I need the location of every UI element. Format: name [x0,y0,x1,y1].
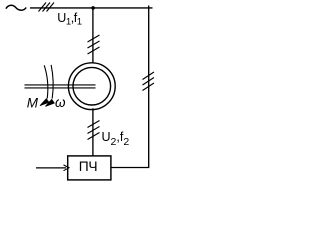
speed arc with arrowhead [51,65,53,99]
three-phase slashes on stator feed [88,35,100,54]
wire: converter output to supply [111,167,149,169]
wire: top supply line [30,7,153,9]
control input arrow into converter [36,167,66,169]
shaft double line [25,85,96,88]
svg-text:ПЧ: ПЧ [79,159,98,174]
svg-text:U2,f2: U2,f2 [102,130,130,148]
node: junction dot [91,6,95,10]
wire: stator feed vertical [92,8,94,64]
frequency converter box U2 (PCh) [68,156,111,180]
three-phase slashes on supply line [39,3,55,12]
svg-text:ω: ω [55,95,66,110]
three-phase slashes on right branch [143,72,155,91]
torque arc with arrowhead [44,65,48,98]
three-phase slashes on rotor circuit [88,121,100,140]
wire: right supply branch vertical [148,6,150,168]
svg-text:M: M [27,96,39,111]
svg-text:U1,f1: U1,f1 [57,11,82,27]
motor M1: wound-rotor induction machine outer circle [68,63,115,110]
motor M1 inner circle (rotor) [73,67,111,105]
wire: rotor to converter vertical [92,108,94,156]
AC source symbol ~ [6,5,26,10]
